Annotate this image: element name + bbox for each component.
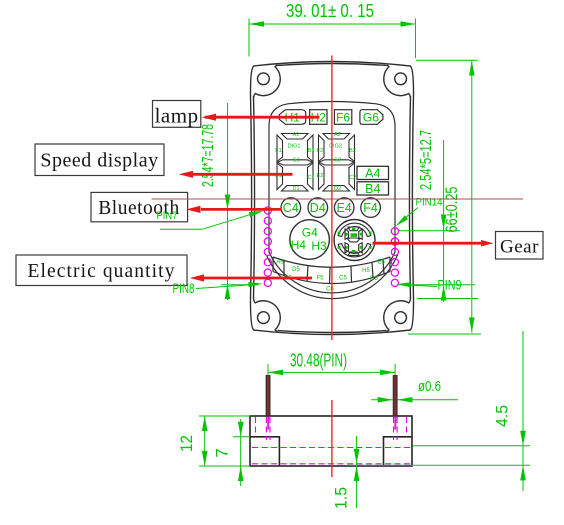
svg-text:D6: D6: [370, 276, 378, 282]
svg-text:4.5: 4.5: [493, 405, 512, 427]
svg-text:F6: F6: [336, 110, 350, 124]
svg-text:G2: G2: [334, 158, 341, 164]
svg-text:H3: H3: [311, 239, 327, 253]
svg-text:PIN14: PIN14: [416, 197, 443, 209]
svg-text:PIN7: PIN7: [157, 210, 178, 222]
svg-text:C2: C2: [349, 175, 356, 181]
svg-text:F4: F4: [363, 201, 378, 215]
svg-text:A1: A1: [293, 132, 300, 138]
svg-text:D4: D4: [310, 201, 326, 215]
svg-text:A6: A6: [276, 260, 284, 266]
svg-text:B2: B2: [349, 148, 356, 154]
svg-text:D5: D5: [292, 267, 300, 273]
svg-text:C5: C5: [339, 276, 347, 282]
svg-text:D1: D1: [292, 186, 299, 192]
svg-text:G1: G1: [292, 158, 299, 164]
svg-text:ø0.6: ø0.6: [418, 378, 441, 395]
svg-text:H5: H5: [362, 268, 370, 274]
svg-text:C1: C1: [307, 175, 314, 181]
svg-text:Gear: Gear: [500, 237, 539, 258]
svg-text:2.54*7=17.78: 2.54*7=17.78: [200, 124, 217, 187]
svg-text:C6: C6: [326, 287, 334, 293]
svg-text:E5: E5: [377, 260, 385, 266]
svg-text:E4: E4: [337, 201, 352, 215]
svg-text:12: 12: [177, 435, 196, 452]
svg-text:DIG2: DIG2: [329, 144, 342, 150]
svg-text:66±0.25: 66±0.25: [442, 187, 461, 233]
svg-text:39. 01± 0. 15: 39. 01± 0. 15: [286, 1, 374, 21]
svg-text:lamp: lamp: [155, 104, 199, 128]
svg-text:C4: C4: [283, 201, 299, 215]
svg-text:A2: A2: [334, 132, 341, 138]
svg-text:Speed display: Speed display: [40, 150, 158, 172]
svg-text:G6: G6: [363, 110, 379, 124]
svg-text:30.48(PIN): 30.48(PIN): [290, 351, 347, 371]
svg-text:A4: A4: [365, 166, 380, 180]
svg-text:PIN9: PIN9: [438, 278, 462, 293]
svg-text:F5: F5: [316, 276, 324, 282]
svg-text:Electric quantity: Electric quantity: [27, 261, 175, 282]
svg-text:H4: H4: [291, 238, 307, 252]
svg-text:1.5: 1.5: [332, 487, 351, 509]
svg-text:7: 7: [213, 448, 232, 457]
svg-text:F2: F2: [317, 148, 323, 154]
svg-text:B1: B1: [308, 148, 315, 154]
svg-text:2.54*5=12.7: 2.54*5=12.7: [418, 130, 435, 190]
svg-text:B4: B4: [365, 182, 380, 196]
svg-text:D2: D2: [334, 186, 341, 192]
svg-text:F1: F1: [275, 148, 281, 154]
svg-text:PIN8: PIN8: [173, 281, 195, 296]
svg-text:E2: E2: [317, 173, 324, 179]
svg-text:DIG1: DIG1: [288, 144, 301, 150]
